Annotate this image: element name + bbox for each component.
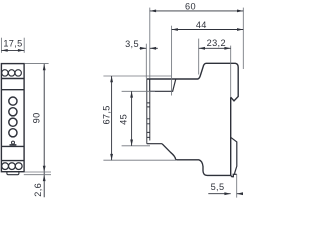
front view mounting foot [7, 172, 19, 175]
side view clip foot [147, 143, 162, 145]
svg-text:67,5: 67,5 [101, 105, 111, 124]
dimension 3,5 extension line [145, 44, 147, 79]
side view bottom outline [162, 144, 235, 177]
svg-text:5,5: 5,5 [211, 182, 225, 192]
svg-text:90: 90 [32, 112, 42, 123]
dimension 17,5 line and arrows [1, 49, 24, 52]
dimension 67,5 extension lines [103, 76, 176, 160]
front view body outline [1, 64, 24, 172]
dimension 60 extension lines [150, 8, 244, 79]
dimension 44 extension line [171, 26, 173, 96]
dimension 5,5 line and arrows [208, 192, 243, 195]
side view rail release tab [231, 137, 237, 174]
svg-text:23,2: 23,2 [207, 38, 226, 48]
dimension 3,5 line and arrows [140, 47, 158, 50]
svg-text:60: 60 [185, 1, 196, 11]
dimension 44 line and arrows [172, 28, 244, 31]
side view lower front face [230, 97, 232, 175]
svg-text:17,5: 17,5 [3, 38, 22, 48]
svg-text:45: 45 [119, 114, 129, 125]
front view button symbol [10, 141, 17, 145]
side view clip back and teeth [147, 79, 150, 143]
dimension 23,2 extension lines [199, 39, 231, 98]
svg-text:2,6: 2,6 [33, 183, 43, 197]
front view dial knobs [9, 97, 17, 137]
front view top terminal screws [2, 70, 22, 76]
dimension 45 extension lines [122, 91, 155, 146]
dimension 67,5 line and arrows [110, 76, 113, 160]
side view rail channel floor [150, 79, 176, 92]
dimension 23,2 line and arrows [199, 47, 231, 50]
side view wall top edge and bezel [147, 63, 239, 101]
svg-text:3,5: 3,5 [125, 39, 139, 49]
dimension 90 extension line top [25, 63, 49, 65]
dimension 5,5 extension line [236, 174, 238, 197]
dimension 2,6 extension lines [24, 172, 51, 175]
side view profile main outline [147, 63, 239, 176]
dimension 45 line and arrows [130, 91, 133, 146]
dimension 17,5 extension lines [1, 38, 24, 53]
front view bottom terminal screws [2, 163, 22, 170]
svg-text:44: 44 [196, 20, 207, 30]
dimension 90 line and arrows [43, 64, 46, 197]
dimension 60 line and arrows [150, 10, 244, 13]
